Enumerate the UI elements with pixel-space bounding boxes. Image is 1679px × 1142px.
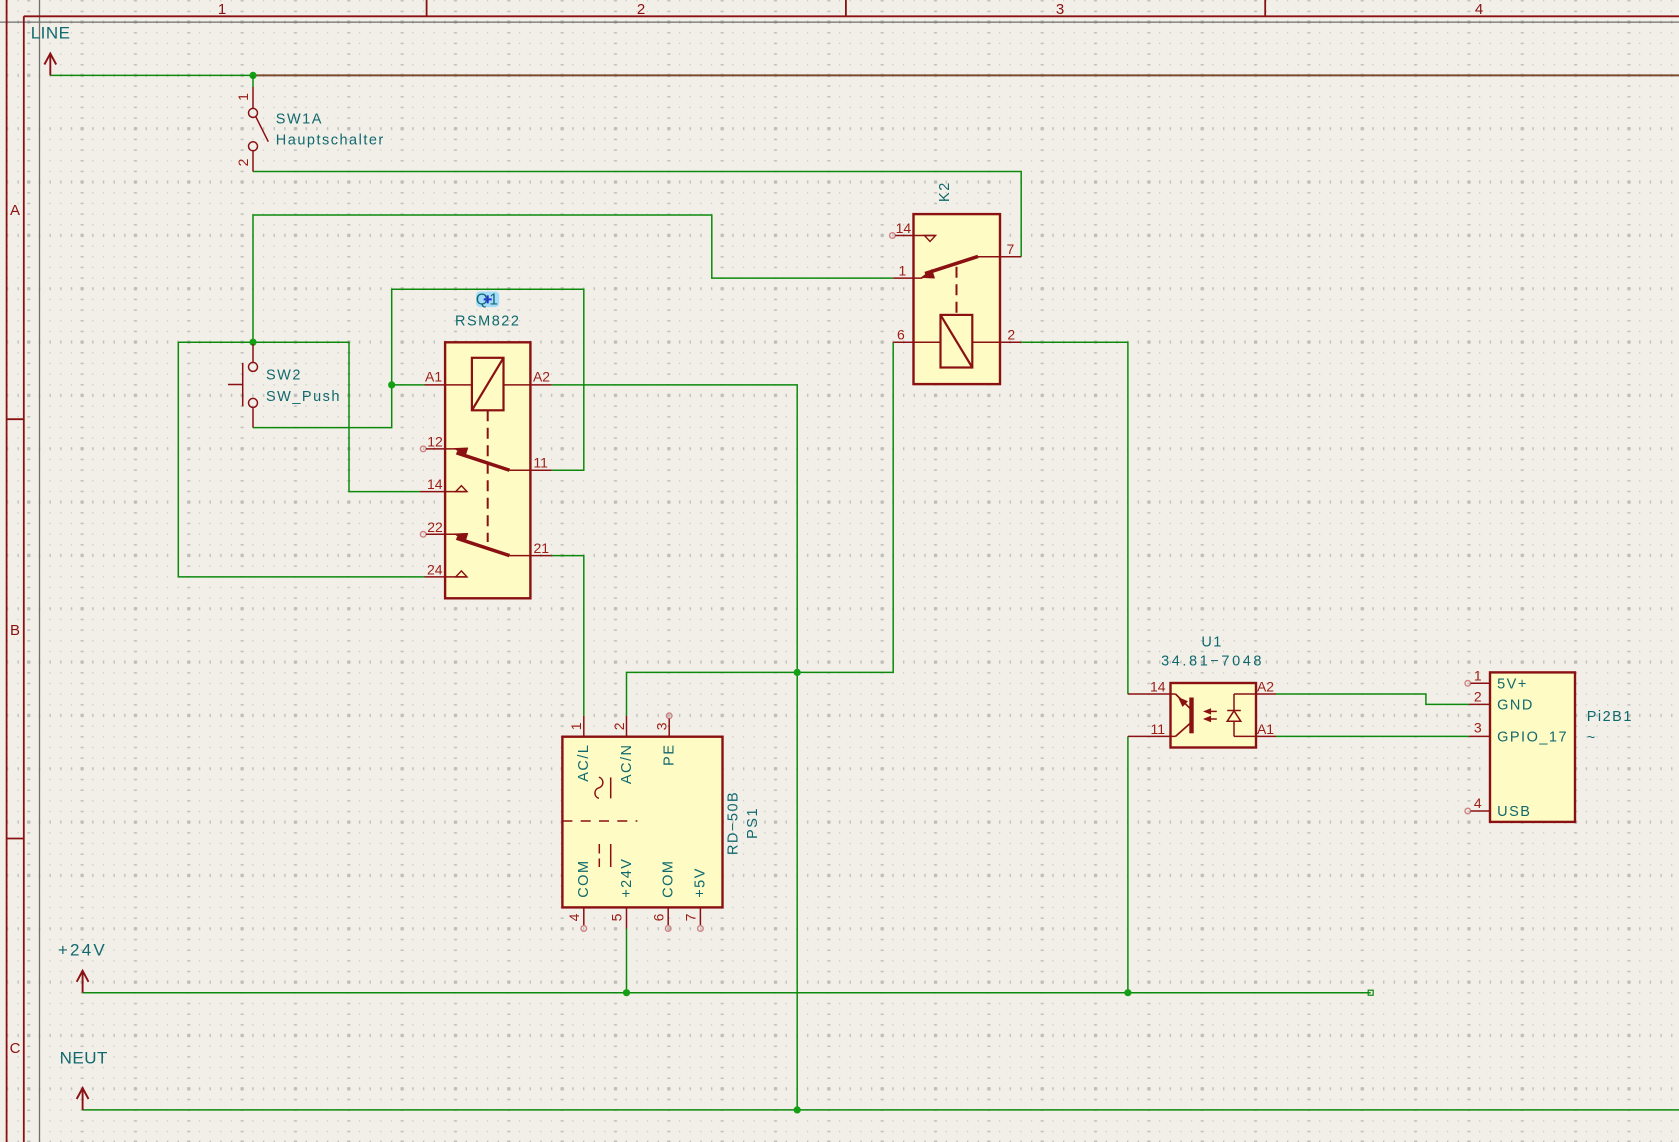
wire U1 pin A1 to Pi2B1 pin3 GPIO_17 <box>1276 735 1469 737</box>
wire Q1 pin A2 down to NEUT rail <box>552 385 798 1110</box>
svg-text:SW2: SW2 <box>266 368 302 384</box>
Q1 pin 11 <box>510 469 552 471</box>
svg-text:COM: COM <box>661 859 677 897</box>
Q1 reference highlight <box>476 292 499 308</box>
PS1 pin 1 <box>583 716 585 737</box>
svg-text:B: B <box>10 622 20 639</box>
Q1 pin 14 <box>420 491 467 493</box>
svg-text:34.81−7048: 34.81−7048 <box>1161 653 1264 669</box>
wire PS1 pin5 +24V output down to rail <box>626 929 628 993</box>
K2 coil diagonal <box>941 315 973 368</box>
svg-text:2: 2 <box>1007 327 1015 343</box>
svg-text:USB: USB <box>1497 804 1531 820</box>
wire NEUT rail <box>83 1109 1679 1111</box>
K2 pin 7 <box>978 256 1021 258</box>
svg-text:24: 24 <box>427 561 443 577</box>
Q1 pin A2 <box>504 384 552 386</box>
wire +24V rail <box>83 992 1371 994</box>
Q1 pin 24 <box>425 576 467 578</box>
svg-text:Q1: Q1 <box>476 292 500 309</box>
svg-text:A1: A1 <box>1257 721 1274 737</box>
K2 pin 1 <box>893 277 922 279</box>
svg-text:3: 3 <box>1474 720 1482 736</box>
svg-text:5V+: 5V+ <box>1497 676 1528 692</box>
wire node A1 up over Q1 to pin 11 <box>392 289 584 470</box>
svg-text:3: 3 <box>654 722 670 730</box>
PS1 pin 3 dangling circle <box>666 713 672 719</box>
svg-text:~: ~ <box>1587 730 1597 746</box>
svg-text:A2: A2 <box>533 368 550 384</box>
svg-text:1: 1 <box>218 1 226 18</box>
svg-text:11: 11 <box>533 455 548 471</box>
Pi2B1 pin 2 <box>1469 703 1490 705</box>
Q1 pin 22 <box>426 533 456 535</box>
wire U1 pin A2 to Pi2B1 pin2 GND <box>1276 694 1469 704</box>
Q1 coil diagonal <box>472 358 504 411</box>
power supply PS1 RD-50B body <box>562 737 722 908</box>
svg-text:22: 22 <box>427 519 443 535</box>
relay K2 body <box>914 214 1001 384</box>
svg-text:PE: PE <box>662 744 678 766</box>
svg-text:+24V: +24V <box>58 941 107 960</box>
svg-text:2: 2 <box>611 722 627 730</box>
K2 pin 14 <box>895 235 935 237</box>
svg-text:LINE: LINE <box>31 24 71 43</box>
U1 light arrows <box>1205 709 1217 721</box>
Q1 coupling dashed line <box>487 410 489 542</box>
svg-text:AC/N: AC/N <box>619 744 635 785</box>
U1 back-to-back diode <box>1227 694 1241 736</box>
PS1 pin 6 <box>667 907 669 925</box>
wire U1 pin11 down to +24V rail <box>1127 736 1129 992</box>
U1 pin 14 <box>1128 693 1176 695</box>
K2 pin 2 <box>972 341 1021 343</box>
svg-text:C: C <box>10 1040 21 1057</box>
PS1 AC section symbol <box>595 777 611 798</box>
svg-text:+24V: +24V <box>619 858 635 898</box>
U1 phototransistor <box>1176 694 1192 736</box>
frame column tick 2|3 <box>845 0 847 16</box>
U1 pin A2 <box>1234 693 1276 695</box>
frame column tick 1|2 <box>426 0 428 16</box>
wire K2 pin2 to U1 pin14 <box>1021 342 1128 694</box>
power symbol NEUT <box>77 1088 89 1110</box>
svg-text:14: 14 <box>1150 678 1166 694</box>
Q1 pin 12 <box>426 448 456 450</box>
svg-text:3: 3 <box>1056 1 1064 18</box>
Pi2B1 pin 4 dangling circle <box>1465 808 1471 814</box>
PS1 pin 3 <box>668 719 670 737</box>
Q1 pin A1 <box>425 384 472 386</box>
svg-text:Hauptschalter: Hauptschalter <box>276 133 385 149</box>
svg-text:AC/L: AC/L <box>576 744 592 782</box>
svg-text:14: 14 <box>427 476 443 492</box>
frame row tick A|B <box>7 418 24 420</box>
svg-text:7: 7 <box>683 913 699 921</box>
wire Q1 pin21 to PS1 pin1 AC/L <box>552 556 584 716</box>
PS1 DC section symbol <box>599 844 610 867</box>
PS1 pin 7 <box>699 907 701 925</box>
svg-text:NEUT: NEUT <box>60 1048 108 1067</box>
junction LINE/SW1A pin1 <box>249 72 256 79</box>
wire SW2 top to K2 pin1 <box>253 215 893 342</box>
svg-text:PS1: PS1 <box>745 807 761 839</box>
frame column tick 3|4 <box>1264 0 1266 16</box>
svg-text:RSM822: RSM822 <box>455 313 520 329</box>
K2 coil <box>941 315 973 368</box>
Q1 reference anchor cross <box>484 295 492 303</box>
Q1 switch arm 22-21 <box>454 533 509 555</box>
unconnected wire end square on +24V rail <box>1368 990 1373 995</box>
svg-text:GPIO_17: GPIO_17 <box>1497 729 1568 745</box>
U1 pin 11 <box>1128 735 1176 737</box>
relay Q1 RSM822 body <box>445 342 530 598</box>
svg-text:4: 4 <box>1475 1 1483 18</box>
K2 pin 14 contact triangle <box>924 236 935 242</box>
wire AC/N net PS1 pin2 to K2 pin6 <box>627 342 894 716</box>
svg-text:SW_Push: SW_Push <box>266 389 341 405</box>
SSR U1 34.81-7048 body <box>1171 683 1257 748</box>
svg-text:A1: A1 <box>425 368 442 384</box>
Q1 switch arm 12-11 <box>454 448 509 470</box>
svg-text:U1: U1 <box>1201 635 1223 651</box>
PS1 pin 6 dangling circle <box>665 926 671 932</box>
svg-text:6: 6 <box>897 327 905 343</box>
svg-text:14: 14 <box>896 220 912 236</box>
Q1 pin 12 dangling circle <box>420 446 426 452</box>
svg-text:RD−50B: RD−50B <box>725 791 741 855</box>
PS1 pin 4 <box>583 907 585 925</box>
svg-text:1: 1 <box>235 93 251 101</box>
svg-text:COM: COM <box>576 859 592 897</box>
junction SW2 node <box>249 339 256 346</box>
wire LINE power to junction <box>50 74 253 76</box>
svg-text:2: 2 <box>235 158 251 166</box>
svg-text:4: 4 <box>566 913 582 921</box>
svg-text:SW1A: SW1A <box>276 111 323 127</box>
power symbol +24V <box>77 971 89 993</box>
wire node A1 to Q1 pin A1 <box>392 384 425 386</box>
K2 switch arm 1-7 <box>921 256 978 278</box>
svg-text:1: 1 <box>568 722 584 730</box>
svg-text:K2: K2 <box>937 181 953 202</box>
svg-text:+5V: +5V <box>693 867 709 898</box>
PS1 pin 7 dangling circle <box>698 926 704 932</box>
wire LINE net brown segment <box>253 74 1679 76</box>
PS1 isolation dashed separator <box>562 820 637 822</box>
svg-text:A2: A2 <box>1257 678 1274 694</box>
svg-text:2: 2 <box>1474 688 1482 704</box>
svg-text:GND: GND <box>1497 697 1534 713</box>
Q1 pin 14 contact triangle <box>456 486 467 492</box>
svg-text:21: 21 <box>534 540 550 556</box>
wire SW2 pin2 to node A1 <box>253 385 392 428</box>
Pi2B1 pin 1 dangling circle <box>1465 681 1471 687</box>
K2 pin 6 <box>893 341 940 343</box>
junction NEUT node <box>794 1106 801 1113</box>
svg-text:4: 4 <box>1474 795 1482 811</box>
Q1 pin 21 <box>510 555 552 557</box>
wire SW1A pin2 to K2 pin7 <box>253 172 1021 257</box>
sheet frame inner left <box>23 16 25 1142</box>
junction +24V at PS1 pin5 <box>623 989 630 996</box>
svg-text:1: 1 <box>899 263 907 279</box>
wire SW2 junction to Q1 pin14 <box>253 342 420 491</box>
Raspberry Pi Pi2B1 body <box>1490 672 1575 822</box>
Q1 pin 22 dangling circle <box>420 532 426 538</box>
Pi2B1 pin 1 <box>1471 682 1490 684</box>
sheet frame outer left <box>6 0 8 1142</box>
push button SW2 <box>228 344 258 428</box>
power symbol LINE <box>44 54 56 76</box>
K2 pin 14 dangling circle <box>890 233 896 239</box>
PS1 pin 2 <box>626 716 628 737</box>
svg-text:7: 7 <box>1007 241 1015 257</box>
Q1 coil <box>472 358 504 411</box>
switch SW1A <box>252 75 254 87</box>
svg-text:12: 12 <box>427 434 443 450</box>
Pi2B1 pin 3 <box>1469 735 1490 737</box>
K2 coupling dashed line <box>956 267 958 315</box>
svg-text:2: 2 <box>637 1 645 18</box>
PS1 pin 5 <box>626 907 628 928</box>
svg-text:Pi2B1: Pi2B1 <box>1587 709 1633 725</box>
junction AC/N node <box>794 669 801 676</box>
svg-text:1: 1 <box>1474 667 1482 683</box>
svg-text:5: 5 <box>609 913 625 921</box>
junction +24V at U1 pin11 <box>1124 989 1131 996</box>
frame row tick B|C <box>7 838 24 840</box>
U1 pin A1 <box>1234 735 1276 737</box>
Q1 pin 24 contact triangle <box>456 571 467 577</box>
origin axis X <box>0 21 1679 23</box>
wire SW2 junction left rail to Q1 pin24 <box>178 342 424 577</box>
sheet frame inner top <box>24 15 1679 17</box>
PS1 pin 4 dangling circle <box>581 926 587 932</box>
Pi2B1 pin 4 <box>1471 810 1490 812</box>
origin axis Y <box>39 0 41 1142</box>
svg-text:A: A <box>10 202 20 219</box>
svg-text:11: 11 <box>1151 721 1166 737</box>
svg-text:6: 6 <box>650 913 666 921</box>
junction node A1 <box>388 381 395 388</box>
